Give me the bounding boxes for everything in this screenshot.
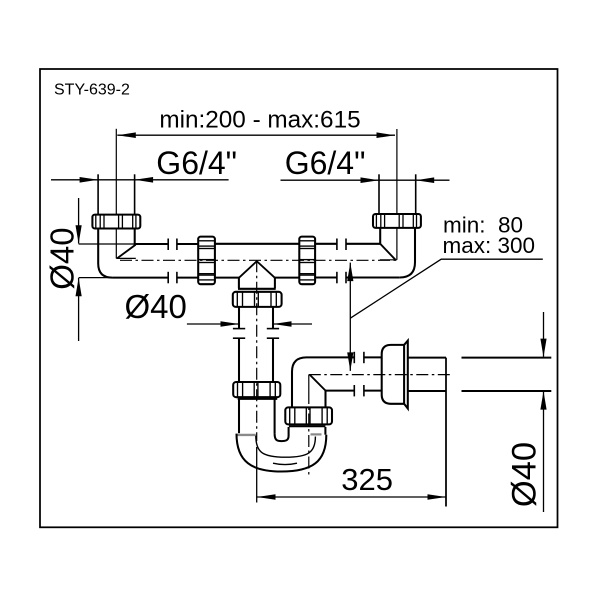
centerline right inlet pipe [380,129,397,260]
tee right nut [299,237,315,285]
branch nut below tee [233,292,282,307]
dimension line G6/4 right [281,177,450,183]
outlet elbow chamfer [310,375,326,391]
right elbow outer wall [400,228,415,278]
tee branch pipe walls below nut [239,307,273,328]
right inlet pipe tails above nut [379,174,416,214]
dimension line min:200-max:615 [117,132,395,138]
trap joint seam right (gray band) [311,433,322,435]
svg-text:Ø40: Ø40 [125,288,187,325]
centerline wall outlet horizontal [309,374,452,376]
svg-text:325: 325 [341,462,393,497]
svg-text:Ø40: Ø40 [506,442,544,507]
main pipe edges to right elbow [346,244,400,278]
main pipe edges after tee [315,244,337,278]
left inlet pipe tails above nut [98,174,135,214]
trap outlet lip [289,425,326,427]
flange disc [404,341,408,409]
trap middle concentric arc [256,436,316,458]
svg-text:max: 300: max: 300 [443,233,536,258]
dimension Ø40 middle [187,321,312,327]
left elbow chamfer [117,245,136,259]
branch pipe break marks [233,329,279,339]
branch pipe walls lower part [239,338,273,382]
trap bottom seam arc [273,463,297,464]
main pipe edges before tee [177,244,198,278]
nut right inlet [373,214,421,228]
trap outlet nut [285,407,332,424]
svg-text:STY-639-2: STY-639-2 [54,81,130,98]
tee branch lip [238,288,276,290]
svg-text:Ø40: Ø40 [44,227,81,289]
wall cup [382,345,404,404]
dimension line 325 [257,494,446,500]
main pipe bottom edge left section [112,277,168,279]
dimension Ø40 right vertical [540,312,546,512]
centerline tee branch vertical [256,260,258,441]
pipe break marks right section [337,239,346,284]
outlet pipe behind wall [462,358,552,391]
tee branch throat walls [239,278,275,289]
wall line / 325 right extension [445,358,447,507]
right elbow chamfer [380,244,395,260]
tee body bottom edges [215,277,299,279]
outlet pipe after disc [408,358,446,391]
outlet pipe break marks [354,352,364,397]
svg-text:G6/4": G6/4" [156,145,237,181]
trap U-bend outer wall [237,434,327,472]
trap U-bend inner wall [275,433,289,441]
tee left nut [198,237,215,285]
left elbow inner wall and top edge [135,229,169,245]
dimension Ø40 left vertical [76,198,136,341]
nut left inlet [92,215,140,229]
drawing frame [40,69,558,527]
svg-text:min:200 - max:615: min:200 - max:615 [159,107,360,134]
tee body top edge [215,243,299,245]
svg-text:G6/4": G6/4" [285,145,366,181]
outlet elbow outer wall [292,357,354,407]
centerline trap outlet vertical [308,375,310,478]
trap inlet lip [238,398,278,400]
trap inlet nut [233,382,280,397]
trap right tube walls [289,427,326,436]
trap joint seam left (gray band) [237,434,256,436]
outlet pipe edges to cup [364,357,382,390]
right elbow inner wall [379,228,381,244]
tee branch cone [239,261,275,278]
leader line for min/max [350,259,543,318]
centerline left inlet pipe [116,129,136,259]
dimension line G6/4 left [51,177,229,183]
left elbow outer wall [98,229,112,278]
325 left extension line [256,447,258,503]
centerline main horizontal pipe [120,259,396,261]
outlet elbow inner wall [326,391,355,408]
pipe break marks left section [168,239,177,284]
vertical double arrow dimension min80-max300 [347,263,353,371]
trap inlet tube walls [239,400,275,434]
